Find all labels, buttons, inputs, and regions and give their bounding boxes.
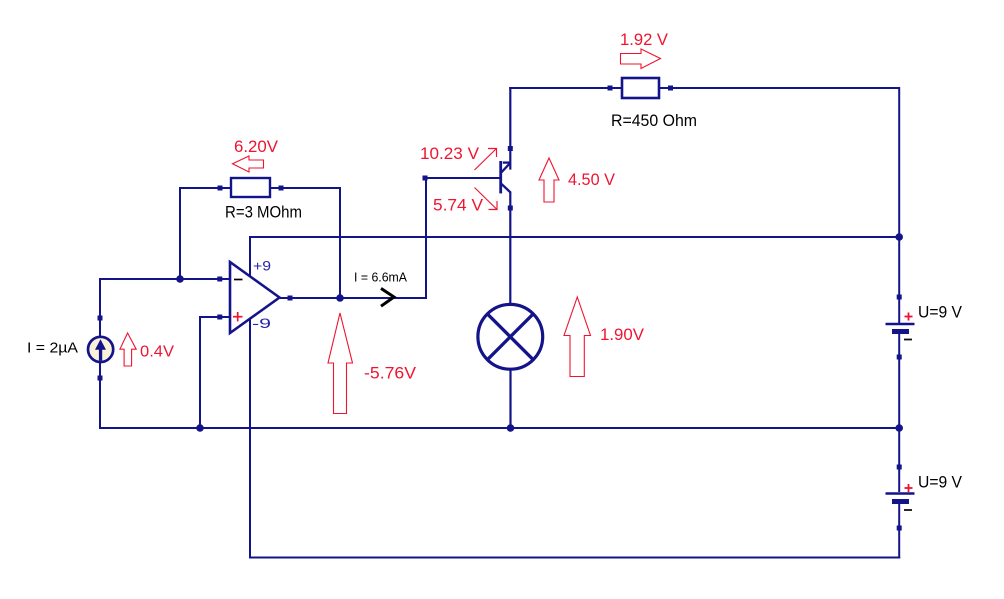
wire: non-inverting input riser [199, 317, 201, 428]
junction: mid rail / battery column [895, 424, 903, 432]
svg-text:10.23 V: 10.23 V [420, 144, 480, 163]
pin marker: current source top [98, 316, 103, 321]
wire: base riser vertical [425, 178, 427, 299]
pin marker: battery B1 bottom [897, 355, 902, 360]
pin marker: battery B2 bottom [897, 526, 902, 531]
junction: feedback right / output [336, 294, 344, 302]
voltage arrow 0.4V (up block arrow) [120, 333, 136, 366]
wire: feedback top right segment [270, 187, 340, 189]
voltage arrow 5.74 V (diagonal down-right) [475, 188, 498, 210]
wire: -9 supply pin vertical down to bottom rail [249, 319, 251, 559]
wire: non-inverting input horizontal [199, 316, 230, 318]
pin marker: transistor base riser corner [423, 176, 428, 181]
wire: collector vertical [509, 87, 511, 170]
svg-text:6.20V: 6.20V [234, 137, 279, 156]
battery B2 positive plate [886, 492, 915, 494]
pin marker: R3M right pin [279, 186, 284, 191]
junction: non-inverting riser / mid rail [196, 424, 204, 432]
svg-text:1.92 V: 1.92 V [620, 30, 669, 49]
pin marker: current source bottom [98, 376, 103, 381]
pin marker: R450 right pin [668, 86, 673, 91]
wire: +9 supply rail horizontal [250, 236, 900, 238]
wire: battery column (battery1 - to mid rail) [898, 334, 900, 428]
svg-text:-9: -9 [252, 316, 271, 331]
resistor R=3 MOhm body [231, 178, 270, 197]
voltage arrow 10.23 V (diagonal up-right) [475, 149, 497, 171]
op-amp non-inverting input label (plus, red) [233, 312, 243, 321]
junction: +9 rail / battery column [895, 233, 903, 241]
wire: current source bottom vertical [99, 361, 101, 429]
wire: base horizontal to transistor [425, 177, 500, 179]
wire: op-amp output horizontal [280, 297, 427, 299]
svg-text:-5.76V: -5.76V [364, 364, 417, 383]
transistor Q1 base bar [499, 161, 502, 193]
wire: feedback top left segment [180, 187, 231, 189]
wire: battery column (mid rail to battery2 +) [898, 428, 900, 492]
battery B2 plus sign [905, 484, 913, 492]
battery B1 plus sign [905, 313, 913, 321]
svg-text:U=9 V: U=9 V [918, 473, 963, 492]
svg-text:4.50 V: 4.50 V [568, 170, 616, 189]
svg-text:I = 2µA: I = 2µA [27, 340, 78, 357]
voltage arrow 1.92 V (right block arrow) [621, 49, 661, 69]
wire: top rail right segment (R450 to right edge) [659, 87, 900, 89]
battery B2 negative plate [892, 499, 909, 504]
battery B1 negative plate [892, 329, 909, 334]
junction: lamp bottom / mid rail [507, 424, 515, 432]
op-amp U1 triangle [230, 262, 280, 333]
svg-text:R=450 Ohm: R=450 Ohm [611, 111, 697, 130]
battery B1 positive plate [886, 323, 915, 325]
wire: lamp bottom vertical [509, 368, 511, 428]
resistor R=450 Ohm body [622, 78, 659, 98]
lamp L1 circle [478, 304, 543, 369]
wire: inverting input horizontal [99, 278, 230, 280]
wire: top rail left segment (collector to R450) [509, 87, 622, 89]
voltage arrow 6.20V (left block arrow) [233, 156, 264, 172]
wire: battery column lower (battery2 - to bottom rail) [898, 503, 900, 559]
svg-text:I = 6.6mA: I = 6.6mA [354, 270, 407, 285]
svg-text:0.4V: 0.4V [140, 344, 174, 361]
wire: emitter vertical down to lamp [509, 192, 511, 306]
wire: mid rail horizontal [99, 427, 900, 429]
lamp L1 cross line 2 [487, 314, 533, 360]
pin marker: battery B1 top [897, 295, 902, 300]
current arrow I=6.6mA (black chevron) [381, 288, 394, 306]
svg-text:5.74 V: 5.74 V [433, 196, 484, 215]
wire: feedback right vertical [339, 187, 341, 298]
svg-text:R=3 MOhm: R=3 MOhm [225, 203, 302, 222]
wire: +9 supply pin of op-amp [249, 236, 251, 277]
svg-text:1.90V: 1.90V [600, 325, 645, 344]
pin marker: battery B2 top [897, 465, 902, 470]
battery B2 minus sign [904, 509, 912, 511]
svg-text:U=9 V: U=9 V [918, 303, 963, 322]
lamp L1 cross line 1 [487, 314, 533, 360]
wire: feedback left vertical [179, 187, 181, 279]
wire: battery column upper (rail to battery1 +) [898, 236, 900, 323]
voltage arrow -5.76V (up block arrow) [328, 313, 353, 414]
wire: right edge vertical (top rail down to +9 rail) [898, 87, 900, 237]
pin marker: transistor collector [508, 146, 513, 151]
wire: bottom rail horizontal [249, 557, 900, 559]
voltage arrow 1.90V (up block arrow) [564, 297, 591, 377]
pin marker: transistor emitter [508, 206, 513, 211]
current source I=2uA circle [88, 337, 113, 362]
voltage arrow 4.50 V (up block arrow) [539, 158, 559, 202]
transistor Q1 collector diagonal with open arrow [501, 163, 510, 173]
wire: current source top vertical [99, 278, 101, 337]
junction: feedback left / inverting input [176, 275, 184, 283]
battery B1 minus sign [904, 339, 912, 341]
pin marker: op-amp output [288, 296, 293, 301]
op-amp inverting input label (minus) [234, 279, 243, 281]
current source arrow (up) [95, 339, 106, 360]
transistor Q1 emitter diagonal [501, 184, 510, 193]
pin marker: R3M left pin [218, 186, 223, 191]
pin marker: op-amp inverting input [217, 277, 222, 282]
pin marker: R450 left pin [608, 86, 613, 91]
svg-text:+9: +9 [253, 259, 271, 274]
pin marker: op-amp non-inverting input [217, 315, 222, 320]
